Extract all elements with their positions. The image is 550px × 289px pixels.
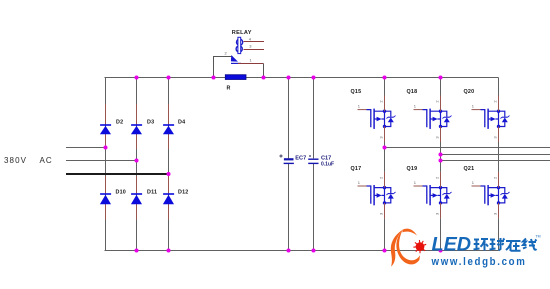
wire bottom DC bus rail (105, 250, 499, 252)
wire relay contact left lead (214, 57, 233, 78)
junction bottom rail / leg2 (439, 249, 443, 253)
capacitor EC7 pin stubs (288, 153, 290, 170)
svg-text:D4: D4 (178, 120, 185, 126)
relay contact arm arrow (231, 55, 238, 62)
wire rectifier column 1 (105, 78, 107, 251)
wire inverter leg2 upper (440, 78, 442, 96)
svg-text:www.ledgb.com: www.ledgb.com (431, 256, 527, 268)
wire capacitor C17 column upper (313, 78, 315, 159)
transistor Q20 (472, 96, 510, 143)
EC7 plus sign (279, 154, 282, 157)
wire inverter leg1 lower (384, 218, 386, 250)
svg-text:1: 1 (250, 58, 253, 63)
junction bottom rail / EC7 (287, 249, 291, 253)
junction top rail / leg1 (383, 76, 387, 80)
svg-text:TM: TM (536, 235, 541, 239)
wire relay contact right lead (238, 63, 264, 65)
junction top rail / C17 (312, 76, 316, 80)
junction AC1 / col1 (104, 146, 108, 150)
junction bottom rail / col2 (135, 249, 139, 253)
svg-text:Q20: Q20 (464, 89, 475, 95)
junction top rail / leg2 (439, 76, 443, 80)
junction top rail / col2 (135, 76, 139, 80)
diode D11 (131, 194, 142, 204)
wire relay coil pin 4 (244, 41, 265, 43)
junction top rail / col3 (167, 76, 171, 80)
svg-text:Q19: Q19 (407, 166, 418, 172)
wire AC phase line 1 (66, 147, 106, 149)
svg-text:AC: AC (40, 156, 53, 165)
junction bottom rail / leg1 (383, 249, 387, 253)
svg-text:Q21: Q21 (464, 166, 475, 172)
svg-text:Q17: Q17 (351, 166, 362, 172)
junction top rail / contact left (212, 76, 216, 80)
svg-text:0.1uF: 0.1uF (321, 162, 334, 168)
transistor Q15 (358, 96, 396, 143)
junction AC3 / col3 (167, 172, 171, 176)
transistor Q19 (414, 172, 452, 219)
junction bottom rail / C17 (312, 249, 316, 253)
svg-text:RELAY: RELAY (232, 30, 252, 36)
wire phase output B (441, 154, 550, 156)
svg-text:4: 4 (249, 37, 252, 42)
wire AC phase line 3 (bold) (66, 173, 169, 175)
wire AC phase line 2 (66, 160, 137, 162)
junction phase C / leg2 (439, 159, 443, 163)
capacitor C17 (308, 159, 318, 163)
svg-text:380V: 380V (4, 156, 27, 165)
wire phase output A (385, 147, 550, 149)
wire rectifier column 3 (168, 78, 170, 251)
wire capacitor EC7 column lower (288, 164, 290, 251)
diode pin stubs column 105.5 (105, 104, 107, 220)
diode pin stubs column 136.5 (136, 104, 138, 220)
diode D10 (100, 194, 111, 204)
wire contact right drop (263, 64, 265, 78)
wire rectifier column 2 (136, 78, 138, 251)
svg-text:LED: LED (432, 234, 472, 256)
wire capacitor C17 column lower (313, 164, 315, 251)
transistor Q21 (472, 172, 510, 219)
junction top rail / contact right (262, 76, 266, 80)
junction bottom rail / col3 (167, 249, 171, 253)
logo chinese 环球在线 (474, 238, 537, 251)
wire inverter leg3 upper (498, 78, 500, 96)
junction phase A / leg1 (383, 146, 387, 150)
resistor R (225, 75, 246, 80)
wire inverter leg1 upper (384, 78, 386, 96)
capacitor EC7 (284, 158, 294, 163)
wire top DC bus rail (105, 77, 499, 79)
transistor Q18 (414, 96, 452, 143)
svg-text:D2: D2 (116, 120, 123, 126)
svg-text:D3: D3 (147, 120, 154, 126)
wire relay coil pin 3 (244, 49, 265, 51)
diode D3 (131, 125, 142, 134)
logo swirl orange (391, 229, 420, 267)
diode D4 (163, 125, 174, 134)
diode D2 (100, 125, 111, 134)
junction top rail / EC7 (287, 76, 291, 80)
diode D12 (163, 194, 174, 204)
svg-text:R: R (227, 86, 231, 92)
svg-text:D11: D11 (147, 190, 157, 196)
svg-text:2: 2 (225, 51, 228, 56)
wire inverter leg2 middle (440, 142, 442, 172)
svg-text:D10: D10 (116, 190, 127, 196)
svg-text:Q18: Q18 (407, 89, 418, 95)
wire capacitor EC7 column upper (288, 78, 290, 159)
relay contact fixed terminal (231, 62, 241, 64)
svg-text:EC7: EC7 (295, 156, 306, 162)
transistor Q17 (358, 172, 396, 219)
wire inverter leg3 middle (498, 142, 500, 172)
wire inverter leg2 lower (440, 218, 442, 250)
wire phase output C (441, 160, 550, 162)
C17 polarity dot (309, 155, 311, 157)
capacitor C17 pin stubs (313, 153, 315, 170)
relay coil K1 (236, 37, 243, 53)
svg-text:Q15: Q15 (351, 89, 362, 95)
logo red star dot (413, 240, 426, 253)
svg-text:D12: D12 (178, 190, 189, 196)
svg-text:3: 3 (249, 44, 252, 49)
wire inverter leg1 middle (384, 142, 386, 172)
wire inverter leg3 lower (498, 218, 500, 250)
junction phase B / leg2 (439, 153, 443, 157)
diode pin stubs column 168.5 (168, 104, 170, 220)
junction AC2 / col2 (135, 159, 139, 163)
